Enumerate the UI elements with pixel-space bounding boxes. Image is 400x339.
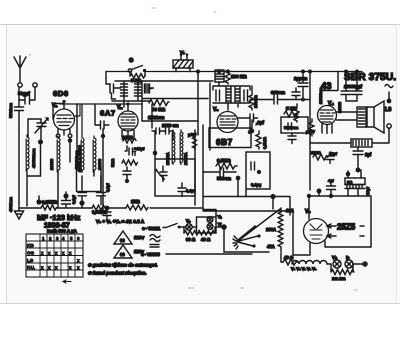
capacitor C21 bbox=[178, 183, 196, 197]
svg-text:Ib: Ib bbox=[346, 255, 349, 260]
cap C18 10uf bbox=[326, 151, 338, 164]
svg-text:V₆: V₆ bbox=[186, 219, 191, 224]
svg-text:0,1µg: 0,1µg bbox=[251, 182, 261, 187]
node D4 bbox=[250, 120, 255, 133]
svg-text:500Ωcm: 500Ωcm bbox=[8, 102, 13, 118]
svg-text:30 Ω: 30 Ω bbox=[186, 237, 196, 242]
svg-text:80: 80 bbox=[120, 238, 125, 243]
label 400ohm-cm bbox=[8, 196, 13, 212]
svg-text:KG: KG bbox=[27, 243, 34, 248]
svg-text:40 Ω: 40 Ω bbox=[201, 237, 211, 242]
ground GND1 bbox=[15, 203, 24, 219]
svg-text:10000: 10000 bbox=[97, 158, 102, 170]
lamp Va bbox=[332, 255, 341, 268]
svg-text:10A: 10A bbox=[286, 208, 294, 213]
resistor R9 5K bbox=[284, 106, 298, 117]
svg-text:5ΩΩ: 5ΩΩ bbox=[110, 159, 115, 167]
svg-text:V₆: V₆ bbox=[180, 50, 185, 55]
svg-text:+10µf: +10µf bbox=[134, 146, 145, 151]
resistor R6 80K bbox=[149, 100, 169, 113]
note MF frequency bbox=[37, 213, 81, 222]
svg-text:20000µµf: 20000µµf bbox=[344, 84, 362, 89]
svg-text:x: x bbox=[62, 251, 65, 256]
tube V4 bbox=[318, 87, 343, 125]
V5 output wires bbox=[325, 224, 371, 247]
capacitor C5 bbox=[97, 176, 111, 205]
svg-text:5000cm: 5000cm bbox=[284, 125, 299, 130]
node D2 bbox=[27, 196, 58, 208]
node D8 bbox=[270, 194, 275, 209]
node D6 bbox=[216, 224, 227, 230]
label 25Z5 bbox=[337, 223, 356, 232]
svg-text:x: x bbox=[55, 251, 58, 256]
svg-text:x: x bbox=[55, 265, 58, 270]
svg-text:40 Ω: 40 Ω bbox=[284, 255, 294, 260]
terminal T3 bbox=[387, 92, 392, 103]
svg-text:µAW: µAW bbox=[306, 129, 315, 134]
resistor R15 40ohm bbox=[283, 255, 298, 265]
tube V5 bbox=[304, 196, 329, 244]
fuse F1 bbox=[173, 50, 193, 72]
svg-text:4: 4 bbox=[62, 236, 65, 241]
sheet right edge bbox=[396, 25, 398, 304]
sheet bottom edge bbox=[0, 303, 400, 305]
triangle warn1 bbox=[114, 231, 145, 244]
wire x203 bbox=[195, 125, 203, 209]
capacitor C16 500cm bbox=[203, 168, 240, 181]
IF transformer IF1 bbox=[106, 72, 213, 108]
label V2 bbox=[117, 105, 123, 111]
resistor R14 bbox=[311, 150, 328, 160]
svg-text:5: 5 bbox=[70, 236, 73, 241]
resistor R11 bbox=[256, 131, 267, 149]
middle lower box bbox=[155, 159, 195, 196]
box AF bbox=[281, 117, 308, 133]
wire verticals mid bbox=[152, 72, 210, 151]
svg-text:V₀ + V₁ +V₂ = 4V. 0.5 A: V₀ + V₁ +V₂ = 4V. 0.5 A bbox=[96, 219, 145, 224]
cap C17 8uf bbox=[353, 147, 372, 173]
tube V3 bbox=[217, 112, 238, 133]
capacitor C8 bbox=[125, 146, 145, 156]
terminal T2 bbox=[33, 83, 37, 87]
svg-text:x: x bbox=[48, 251, 51, 256]
svg-text:0,05MΩ: 0,05MΩ bbox=[42, 200, 58, 205]
meter M1 bbox=[207, 214, 222, 222]
svg-text:x: x bbox=[77, 265, 80, 270]
speck marks bbox=[30, 8, 357, 290]
svg-text:Icath 500 A µA: Icath 500 A µA bbox=[47, 229, 78, 234]
svg-text:6A7: 6A7 bbox=[100, 109, 116, 118]
capacitor C9 bbox=[123, 167, 131, 183]
coil L7 bbox=[166, 130, 175, 165]
tube V2 pins bbox=[122, 131, 134, 138]
small arrow mark bbox=[63, 280, 71, 283]
svg-text:x: x bbox=[69, 251, 72, 256]
label 500ohm-cm bbox=[8, 102, 13, 118]
capacitor C11 1000cm bbox=[152, 123, 179, 134]
svg-text:10µf: 10µf bbox=[329, 151, 338, 156]
svg-text:100 KΩ: 100 KΩ bbox=[231, 74, 247, 79]
svg-text:20000cm: 20000cm bbox=[318, 87, 323, 104]
svg-text:LS: LS bbox=[385, 107, 392, 113]
note line2 bbox=[88, 271, 147, 276]
svg-text:0,5MΩ: 0,5MΩ bbox=[262, 137, 267, 149]
wire x77 down bbox=[77, 104, 82, 172]
svg-text:V₅: V₅ bbox=[305, 209, 311, 215]
resistor 5K bbox=[130, 74, 145, 83]
svg-text:Yₐ: Yₐ bbox=[218, 214, 223, 219]
svg-text:60: 60 bbox=[120, 252, 125, 257]
variable capacitor CV1 bbox=[28, 118, 48, 142]
capacitor C2 series bbox=[15, 100, 24, 130]
capacitor C15 bbox=[288, 133, 296, 144]
svg-text:300cm: 300cm bbox=[271, 90, 285, 95]
triangle warn2 bbox=[114, 245, 144, 258]
tube V4 pins bbox=[322, 124, 332, 134]
resistor R8 bbox=[249, 86, 258, 110]
RF choke L5 bbox=[215, 70, 247, 86]
label V3 bbox=[213, 107, 219, 113]
coil L8 bbox=[180, 130, 188, 165]
caps right of V3 box bbox=[292, 88, 300, 100]
IF transformer IF2 bbox=[213, 86, 250, 110]
capacitor C10 bbox=[145, 84, 153, 93]
node D3d bbox=[301, 70, 305, 74]
svg-text:LG: LG bbox=[27, 258, 34, 263]
top bus bbox=[106, 71, 362, 73]
sunburst switch bbox=[233, 208, 294, 249]
svg-text:1000 cm: 1000 cm bbox=[162, 123, 179, 128]
label 6A7 bbox=[100, 109, 116, 118]
speaker LS bbox=[367, 101, 392, 133]
svg-text:16µf: 16µf bbox=[365, 186, 370, 195]
sheet top edge bbox=[0, 24, 400, 26]
resistor R22 bbox=[92, 205, 108, 214]
meter box bbox=[197, 217, 217, 233]
capacitor C1 50uuF bbox=[18, 87, 35, 104]
label V5 bbox=[305, 209, 311, 215]
resistor R4 bbox=[122, 135, 136, 143]
svg-text:V₃: V₃ bbox=[213, 107, 219, 113]
svg-text:SBR 375U.: SBR 375U. bbox=[344, 72, 396, 83]
box 8n bbox=[345, 170, 370, 195]
svg-text:8Ω: 8Ω bbox=[347, 180, 352, 185]
svg-text:o~ 55555: o~ 55555 bbox=[141, 252, 160, 257]
svg-text:OG: OG bbox=[27, 251, 35, 256]
node D7 bbox=[153, 131, 158, 159]
node D3g bbox=[355, 70, 359, 74]
antenna A bbox=[14, 56, 26, 82]
capacitor C3 bbox=[62, 192, 77, 208]
AVC box bbox=[246, 152, 270, 189]
svg-text:1µf: 1µf bbox=[365, 152, 372, 157]
wire coil bottoms bbox=[27, 172, 94, 196]
coupling cap C13 300cm bbox=[250, 90, 310, 104]
svg-text:100A: 100A bbox=[266, 227, 276, 232]
filter choke L6 bbox=[310, 139, 387, 147]
sheet left edge bbox=[6, 25, 8, 304]
svg-text:10000A: 10000A bbox=[184, 152, 188, 165]
note line1 bbox=[88, 263, 158, 268]
resistor R16 bbox=[331, 264, 354, 281]
svg-text:500cm: 500cm bbox=[217, 176, 231, 181]
svg-text:10000: 10000 bbox=[337, 101, 342, 113]
svg-text:180Ω: 180Ω bbox=[311, 150, 321, 155]
svg-text:170Ωcm: 170Ωcm bbox=[148, 115, 165, 120]
svg-text:180ΩΩ: 180ΩΩ bbox=[253, 95, 258, 108]
wires lower mid bbox=[203, 178, 290, 217]
coil L2 bbox=[49, 136, 60, 172]
svg-text:20000A: 20000A bbox=[166, 152, 170, 165]
terminal T1 bbox=[18, 83, 22, 87]
terminal T4 bbox=[387, 124, 391, 143]
svg-text:25Z5: 25Z5 bbox=[337, 223, 356, 232]
wire antenna down bbox=[18, 130, 20, 203]
resistor R12 bbox=[294, 104, 299, 122]
svg-text:10KΩ: 10KΩ bbox=[122, 135, 134, 140]
cap C14 2uucm bbox=[294, 72, 308, 102]
heater bumps bbox=[291, 261, 331, 272]
svg-text:,1µf: ,1µf bbox=[256, 120, 264, 125]
svg-text:0,1µf: 0,1µf bbox=[106, 183, 110, 192]
label V4 bbox=[328, 101, 334, 107]
svg-text:0,5MΩ: 0,5MΩ bbox=[217, 158, 231, 163]
node D3f bbox=[344, 70, 348, 74]
svg-text:G fermé pendant réception.: G fermé pendant réception. bbox=[88, 271, 147, 276]
wire x310 bbox=[309, 72, 311, 191]
switch S2 bbox=[155, 169, 165, 181]
wires PSU bottom bbox=[307, 189, 371, 248]
svg-text:2: 2 bbox=[49, 236, 52, 241]
meter M2 bbox=[207, 222, 222, 230]
wire V1 plate to bus bbox=[60, 104, 142, 116]
svg-text:x: x bbox=[48, 265, 51, 270]
squiggle mains bbox=[385, 85, 393, 88]
resistor R19 R20 bbox=[184, 227, 215, 242]
switch G bbox=[128, 66, 146, 77]
shield box 6B7 bbox=[209, 128, 251, 148]
svg-text:x: x bbox=[69, 265, 72, 270]
resistor R7 bbox=[225, 70, 230, 84]
note cathode current bbox=[47, 229, 78, 234]
node D3 bbox=[196, 70, 200, 74]
resistor R21 bbox=[188, 133, 197, 150]
svg-text:0,1µf: 0,1µf bbox=[72, 195, 76, 204]
SBR title bbox=[344, 72, 396, 83]
svg-text:6: 6 bbox=[77, 236, 80, 241]
node D3e bbox=[308, 70, 312, 74]
label 43 bbox=[321, 72, 338, 93]
node D5 bbox=[353, 261, 368, 267]
svg-text:x: x bbox=[41, 265, 44, 270]
svg-text:P.U.: P.U. bbox=[27, 265, 35, 270]
coil L1 bbox=[26, 135, 36, 171]
lamp Ib bbox=[345, 255, 353, 268]
resistor R18 vertical bbox=[278, 208, 283, 252]
svg-text:50µµf: 50µµf bbox=[18, 91, 30, 96]
coil L4 bbox=[93, 136, 102, 172]
svg-text:20000 A 60000: 20000 A 60000 bbox=[77, 145, 82, 172]
svg-text:120v: 120v bbox=[134, 235, 145, 240]
label V1 bbox=[52, 103, 57, 109]
resistor R3 10K bbox=[126, 199, 148, 210]
capacitor C4 bbox=[78, 176, 87, 208]
note model year bbox=[44, 223, 70, 230]
wire v142 bbox=[142, 81, 208, 121]
svg-text:6B7: 6B7 bbox=[216, 138, 233, 147]
equation line bbox=[96, 219, 145, 224]
approx squiggle bbox=[150, 235, 160, 248]
smoothing caps 20000uuf bbox=[341, 72, 362, 102]
tube V1 pins bbox=[56, 129, 72, 162]
svg-text:1: 1 bbox=[42, 236, 45, 241]
svg-text:x: x bbox=[41, 251, 44, 256]
wire chain left bbox=[224, 229, 283, 262]
node D3c bbox=[226, 70, 230, 74]
resistor R13 bbox=[306, 119, 315, 136]
svg-text:x: x bbox=[77, 258, 80, 263]
capacitor C20 bbox=[160, 166, 167, 182]
resistor R5 bbox=[110, 159, 138, 167]
coil L3 bbox=[74, 104, 84, 172]
svg-text:80 KΩ: 80 KΩ bbox=[152, 107, 166, 112]
svg-text:1KΩ: 1KΩ bbox=[131, 199, 140, 204]
capacitor C6 bbox=[103, 206, 111, 222]
wire baseline bbox=[19, 207, 203, 209]
svg-text:3: 3 bbox=[56, 236, 59, 241]
meter Vs bbox=[184, 219, 197, 231]
svg-text:o~ 53111: o~ 53111 bbox=[142, 226, 161, 231]
svg-text:MF ·123 kHz: MF ·123 kHz bbox=[37, 213, 81, 222]
svg-text:40000Ωcm: 40000Ωcm bbox=[31, 148, 36, 168]
cap C19 4uf bbox=[327, 178, 336, 196]
output transformer TR1 bbox=[337, 107, 367, 127]
coil box bbox=[77, 162, 102, 192]
svg-text:V₅ V₄ V₁ V₂ V₆: V₅ V₄ V₁ V₂ V₆ bbox=[291, 267, 317, 271]
svg-text:Yȋ: Yȋ bbox=[218, 222, 223, 227]
svg-text:ma ma: ma ma bbox=[332, 276, 346, 281]
tube V2 bbox=[118, 102, 138, 131]
label 6D6 bbox=[53, 89, 69, 98]
svg-text:Va: Va bbox=[332, 255, 337, 260]
svg-text:G gesloten tijdens de ontvangs: G gesloten tijdens de ontvangst. bbox=[88, 263, 158, 268]
node D3b bbox=[217, 70, 221, 74]
svg-text:V₂: V₂ bbox=[117, 105, 123, 111]
svg-text:4µf: 4µf bbox=[328, 178, 335, 183]
tube V1 bbox=[53, 100, 75, 130]
svg-text:20000: 20000 bbox=[49, 158, 54, 170]
switch row2 bbox=[141, 252, 252, 257]
resistor R2 0.05M bbox=[41, 200, 58, 211]
svg-text:45A: 45A bbox=[267, 244, 275, 249]
svg-text:6D6: 6D6 bbox=[53, 89, 69, 98]
svg-text:G: G bbox=[129, 58, 133, 64]
switch row bbox=[142, 224, 184, 232]
capacitor C7 bbox=[95, 104, 109, 210]
svg-text:400Ωcm: 400Ωcm bbox=[8, 196, 13, 212]
node D1 bbox=[38, 140, 43, 177]
label G bbox=[129, 58, 133, 64]
bottom middle box bbox=[293, 209, 310, 255]
capacitor C12 0.1uf bbox=[238, 114, 264, 134]
resistor R10 0.5M bbox=[216, 158, 237, 169]
band table bbox=[26, 234, 83, 277]
svg-text:2µµcm: 2µµcm bbox=[294, 76, 307, 81]
wire 170 bbox=[142, 115, 198, 121]
